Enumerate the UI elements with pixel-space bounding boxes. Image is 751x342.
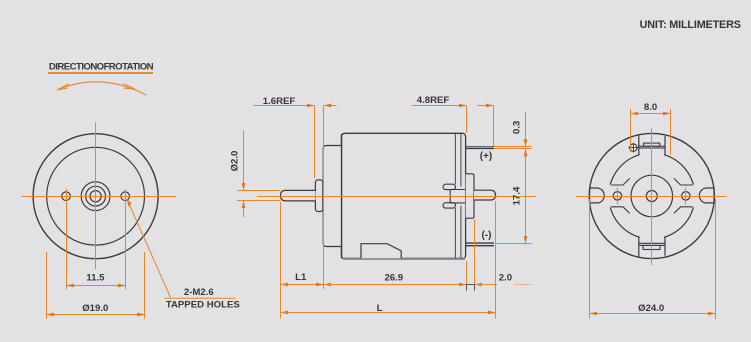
terminal plus tab xyxy=(466,146,494,148)
ring gap mask right xyxy=(691,185,702,208)
top tab window xyxy=(644,143,660,146)
L1 dim line xyxy=(281,284,324,286)
extension line endcap right xyxy=(144,252,146,319)
L dim line xyxy=(281,312,496,314)
dim line 11.5 xyxy=(67,285,96,287)
rear screw hole right xyxy=(682,192,690,200)
screw hole cross right xyxy=(685,188,687,205)
dia 2.0 dim vertical line xyxy=(243,130,245,191)
svg-text:(-): (-) xyxy=(482,230,492,241)
4.8REF dim line xyxy=(412,105,467,107)
left tapped hole xyxy=(62,192,71,201)
rear screw hole left xyxy=(613,192,621,200)
ring gap mask left xyxy=(602,185,613,208)
rear center boss xyxy=(631,175,673,217)
2.0 dark witness marks xyxy=(467,284,475,286)
motor can body xyxy=(342,133,466,258)
bottom tab lines xyxy=(639,242,665,244)
top tab lines xyxy=(639,145,665,147)
svg-text:UNIT: MILLIMETERS: UNIT: MILLIMETERS xyxy=(640,19,741,31)
underline xyxy=(48,72,153,74)
1.6REF extension lines xyxy=(314,106,316,179)
17.4 extension lines xyxy=(494,146,532,148)
left cutout chords xyxy=(611,178,630,213)
hub boss circle xyxy=(81,182,110,211)
can bottom thick line xyxy=(343,258,465,260)
ring gap mask top xyxy=(640,150,665,160)
shaft xyxy=(281,190,316,201)
svg-text:Ø2.0: Ø2.0 xyxy=(230,151,241,172)
rear vertical centerline xyxy=(651,128,653,265)
extension line right hole xyxy=(125,189,127,289)
svg-text:(+): (+) xyxy=(480,151,493,162)
top rivet xyxy=(630,144,637,151)
motor front inner circle (endcap) xyxy=(47,147,145,245)
motor front outer circle xyxy=(33,134,158,259)
terminal minus tab xyxy=(466,242,494,244)
svg-text:17.4: 17.4 xyxy=(512,186,523,205)
brush clip pill top xyxy=(443,184,456,189)
endcap xyxy=(323,146,341,247)
hub bearing circle xyxy=(86,186,106,206)
svg-text:26.9: 26.9 xyxy=(384,273,403,284)
can seam line 2 xyxy=(460,134,462,187)
svg-text:8.0: 8.0 xyxy=(644,102,657,113)
dia 24 extension lines xyxy=(589,199,591,319)
2.0 dim arrow xyxy=(475,284,491,286)
rear middle ring xyxy=(609,153,695,239)
rear outer circle xyxy=(589,133,714,258)
leader to tapped hole xyxy=(128,202,235,299)
extension line endcap left xyxy=(46,252,48,319)
svg-text:Ø24.0: Ø24.0 xyxy=(638,303,664,314)
screw hole cross left xyxy=(617,188,619,205)
svg-text:L: L xyxy=(377,303,383,314)
bottom tab window xyxy=(643,245,660,249)
rear boss xyxy=(466,174,474,218)
svg-text:0.3: 0.3 xyxy=(512,121,523,134)
bottom notch xyxy=(361,244,401,259)
dia 24 dim line xyxy=(590,313,652,315)
26.9 dim line xyxy=(324,284,467,286)
8.0 dim line xyxy=(631,113,671,115)
rear shaft tip xyxy=(474,190,496,200)
brush clip pill bottom xyxy=(443,203,456,208)
horizontal centerline xyxy=(21,196,176,198)
ring gap mask bottom xyxy=(640,233,665,243)
rotation arrowhead right xyxy=(123,84,135,89)
can seam line 1 xyxy=(454,134,456,184)
svg-text:2.0: 2.0 xyxy=(499,273,512,284)
svg-text:Ø19.0: Ø19.0 xyxy=(82,303,108,314)
rear shaft hole xyxy=(646,191,657,202)
svg-text:L1: L1 xyxy=(295,272,307,283)
8.0 extension lines xyxy=(630,109,632,152)
svg-text:TAPPED HOLES: TAPPED HOLES xyxy=(166,300,241,311)
dia 2.0 extension lines xyxy=(237,190,281,192)
right cutout chords xyxy=(674,178,693,213)
svg-text:2-M2.6: 2-M2.6 xyxy=(184,287,214,298)
vertical centerline xyxy=(95,122,97,269)
brush clip body xyxy=(450,190,465,203)
right tapped hole xyxy=(121,192,130,201)
svg-text:11.5: 11.5 xyxy=(86,273,105,284)
bottom extension lines xyxy=(280,202,282,319)
dim line dia 19.0 xyxy=(47,314,96,316)
4.8REF extension lines xyxy=(466,106,468,134)
bottom tab edges xyxy=(639,236,665,257)
rotation arrowhead left xyxy=(57,84,69,90)
rear horizontal centerline xyxy=(576,196,727,198)
bushing xyxy=(315,180,322,212)
leader arrowhead xyxy=(127,199,132,207)
shaft circle xyxy=(90,191,101,202)
1.6REF dim line xyxy=(253,105,315,107)
right ear cutout xyxy=(699,188,714,203)
left ear cutout xyxy=(590,188,605,203)
svg-text:DIRECTION OF ROTATION: DIRECTION OF ROTATION xyxy=(49,62,154,73)
rotation arc arrow xyxy=(57,82,146,95)
svg-text:4.8REF: 4.8REF xyxy=(417,95,450,106)
extension line left hole xyxy=(66,189,68,289)
top tab edges xyxy=(639,135,665,156)
horizontal centerline xyxy=(257,196,536,198)
can left edge line xyxy=(341,134,343,258)
0.3 / 17.4 vertical dim line xyxy=(525,112,527,147)
